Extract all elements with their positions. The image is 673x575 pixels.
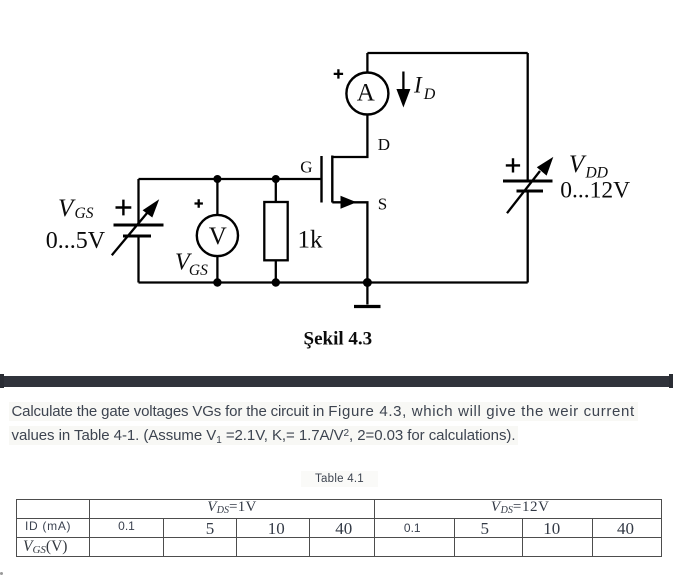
svg-text:G: G bbox=[300, 157, 312, 176]
svg-text:S: S bbox=[378, 195, 387, 214]
svg-text:GS: GS bbox=[75, 205, 94, 222]
svg-text:V: V bbox=[58, 195, 76, 222]
svg-text:V: V bbox=[209, 223, 227, 250]
svg-text:D: D bbox=[378, 135, 390, 154]
svg-text:0...12V: 0...12V bbox=[560, 178, 630, 204]
svg-text:V: V bbox=[569, 151, 587, 178]
svg-text:0...5V: 0...5V bbox=[46, 228, 106, 254]
svg-text:D: D bbox=[423, 86, 436, 103]
svg-text:Şekil 4.3: Şekil 4.3 bbox=[304, 329, 373, 350]
svg-text:I: I bbox=[413, 72, 423, 97]
svg-text:GS: GS bbox=[189, 262, 208, 279]
svg-text:1k: 1k bbox=[298, 227, 324, 254]
svg-text:A: A bbox=[357, 79, 375, 106]
